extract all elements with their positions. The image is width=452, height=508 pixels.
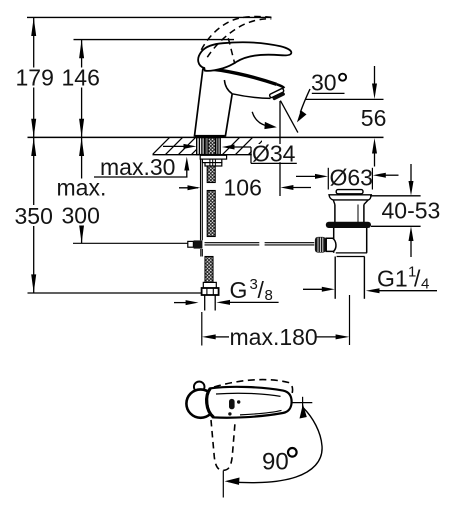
threaded shank (through deck, cross-hatched) xyxy=(208,138,216,155)
wire: aerator height line (56 level) xyxy=(305,98,384,100)
svg-text:350: 350 xyxy=(15,203,53,229)
annotation 30°: slanted line xyxy=(280,101,298,133)
pop-up waste: tailpipe xyxy=(335,257,364,299)
dimension G3/8: left arrow xyxy=(174,302,189,304)
lever raised (dashed outline) xyxy=(201,16,271,63)
dimension max.300: arrows xyxy=(79,137,84,243)
top view: pin circle xyxy=(194,382,205,393)
svg-text:179: 179 xyxy=(16,65,54,91)
annotation 30°: left arc arrow xyxy=(252,112,267,126)
faucet body: inner crease hook xyxy=(224,80,232,94)
G3/8 fitting nut xyxy=(202,288,219,295)
dimension G1 1/4: left arrow xyxy=(303,288,325,290)
dimension 56: bottom arrow xyxy=(372,138,377,167)
pop-up waste: plug disc xyxy=(336,190,363,194)
top view: reference line right xyxy=(291,402,313,404)
pop-up waste: upper body xyxy=(335,205,364,223)
dimension 146: arrows xyxy=(79,40,84,138)
dimension 106 xyxy=(179,185,311,190)
svg-text:/: / xyxy=(414,265,421,291)
top view: center line xyxy=(222,471,224,498)
dimension 40-53: top line xyxy=(370,195,421,197)
dimension max.300 end / pop-up rod horizontal line xyxy=(73,242,188,244)
svg-text:4: 4 xyxy=(421,275,429,292)
pop-up waste: lower body xyxy=(334,228,367,253)
top view: paddle xyxy=(207,387,292,418)
label Ø34 xyxy=(252,144,296,162)
pop-up waste: flange xyxy=(329,195,371,200)
faucet body: heavy top stroke xyxy=(203,68,277,84)
pop-up rod (horizontal, to waste) xyxy=(205,243,315,245)
shank bundle left hoses (through deck) xyxy=(197,138,206,155)
flexible hose (hatched) upper xyxy=(207,166,215,183)
dimension G3/8: leader underline with arrow xyxy=(228,301,279,303)
dimension Ø34: right arrow and leader xyxy=(222,145,297,164)
dimension Ø63 xyxy=(296,168,399,190)
dimension 179: arrows xyxy=(31,17,36,137)
lever (solid, closed position) xyxy=(198,42,291,71)
pop-up rod knob (knurled) xyxy=(315,237,326,253)
svg-text:Ø34: Ø34 xyxy=(252,140,296,166)
top view: spout (dashed, pointing down) xyxy=(211,420,235,470)
rod coupling xyxy=(188,241,194,247)
svg-text:90: 90 xyxy=(262,448,289,475)
mounting washer xyxy=(200,155,226,159)
label max. 300 xyxy=(55,179,103,226)
svg-text:146: 146 xyxy=(62,65,100,91)
top view: dots xyxy=(237,400,240,403)
svg-text:30: 30 xyxy=(311,70,337,96)
svg-text:G: G xyxy=(230,277,248,303)
top view: knob/paddle junction (thick arc) xyxy=(207,388,214,417)
wire: top reference line (max lever height, y=17) xyxy=(27,16,272,18)
supply pipe below fitting xyxy=(205,295,216,311)
svg-text:56: 56 xyxy=(361,105,387,131)
dimension 90°: arc xyxy=(229,408,323,483)
top view: rotated paddle (dashed) xyxy=(214,380,293,396)
dimension 56: top arrow xyxy=(372,66,377,99)
wire: deck bottom line xyxy=(153,154,263,156)
pop-up waste: rubber gasket xyxy=(326,222,371,228)
top view: knob (lever butt) xyxy=(186,389,214,417)
dimension 179: vertical line xyxy=(33,17,35,293)
dimension G1 1/4: leader underline with arrow xyxy=(378,290,437,292)
faucet base contact line xyxy=(195,135,225,137)
dimension Ø34: left arrow xyxy=(163,144,196,149)
label 146 xyxy=(60,68,99,88)
svg-text:Ø63: Ø63 xyxy=(330,164,373,190)
deck hatching left xyxy=(152,137,209,155)
pop-up rod (vertical) xyxy=(201,159,203,257)
aerator (white band + dark band) xyxy=(269,88,286,101)
svg-text:max.: max. xyxy=(57,175,107,201)
svg-text:max.180: max.180 xyxy=(230,324,318,350)
pop-up waste: shoulder xyxy=(336,252,367,254)
dimension 90°: bottom arrowhead xyxy=(225,478,240,485)
flexible hose (hatched) middle xyxy=(207,191,215,237)
svg-text:G1: G1 xyxy=(377,265,408,291)
svg-text:40-53: 40-53 xyxy=(382,197,441,223)
mounting nut step 2 xyxy=(205,163,222,166)
deck hatching right xyxy=(222,137,279,155)
dimension max.180: line and arrows xyxy=(202,334,216,339)
dimension 40-53: arrows xyxy=(409,164,414,257)
faucet spout tip corner xyxy=(277,84,285,88)
label 106 xyxy=(222,177,265,198)
dimension 90°: top arrowhead xyxy=(300,404,307,419)
G3/8 fitting collar xyxy=(203,282,216,288)
right hose (through deck) xyxy=(216,138,220,155)
dimension 350: arrows xyxy=(31,137,36,293)
faucet spout underside xyxy=(232,94,270,99)
mounting nut step 1 xyxy=(202,159,221,163)
annotation 30°: vertical reference line xyxy=(279,101,281,196)
svg-text:/: / xyxy=(258,277,265,303)
faucet body: left edge xyxy=(194,69,203,137)
flexible hose (hatched) lower xyxy=(205,257,213,283)
svg-text:8: 8 xyxy=(265,287,273,304)
wire: closed-lever reference line (y=39) xyxy=(74,39,235,41)
faucet body: right edge xyxy=(225,94,232,137)
top view: handle slot detail xyxy=(229,399,235,409)
svg-text:106: 106 xyxy=(224,174,262,200)
svg-text:max.30: max.30 xyxy=(100,154,175,180)
annotation 30°: underline xyxy=(312,92,345,94)
label 350 xyxy=(13,205,54,226)
rod socket on waste xyxy=(326,238,336,251)
dimension 146: vertical line xyxy=(81,40,83,244)
svg-text:300: 300 xyxy=(62,203,100,229)
dimension 40-53: bottom line xyxy=(371,225,421,227)
wire: supply connection line (350 level) xyxy=(28,292,202,294)
annotation 30°: leader from label xyxy=(300,89,310,113)
top view: inner lines xyxy=(216,393,281,396)
dimension max.180: extension lines xyxy=(201,312,203,346)
wire: deck top line xyxy=(28,136,384,138)
label 179 xyxy=(14,68,54,88)
pop-up waste: neck xyxy=(333,200,368,205)
